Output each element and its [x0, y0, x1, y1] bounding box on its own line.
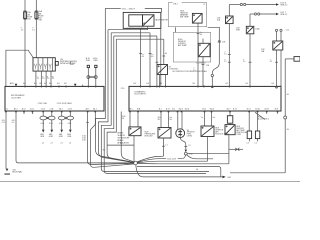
gauge icon 3 — [44, 64, 47, 69]
ground junction node — [134, 161, 138, 165]
branch connector marks — [218, 41, 221, 42]
G31 arrow — [223, 176, 226, 179]
svg-text:0.5: 0.5 — [12, 122, 15, 124]
CAN pair wire 4 (C1.B) — [69, 111, 71, 116]
sensor K6 top stub — [202, 39, 204, 44]
fuel sender internal bar — [179, 130, 181, 137]
svg-text:GRB: GRB — [86, 60, 91, 62]
svg-text:C202 2-DR CAN 1: C202 2-DR CAN 1 — [57, 102, 73, 105]
svg-text:AIR TEMP: AIR TEMP — [178, 44, 187, 47]
wire supply 1 vertical x=25 — [24, 0, 26, 86]
svg-text:4752 — GMC H: 4752 — GMC H — [122, 8, 136, 10]
gauge module divider 4 — [52, 58, 54, 71]
F1 wire ticks and labels — [228, 54, 231, 56]
CAN terminal block 2 — [95, 65, 97, 67]
instrument cluster left box U1 — [5, 86, 104, 111]
svg-text:GND: GND — [125, 163, 130, 165]
svg-text:APPLICATION: APPLICATION — [118, 141, 130, 144]
fuel sender bottom wire — [180, 138, 186, 150]
svg-text:1.5: 1.5 — [37, 78, 40, 80]
svg-text:C.5: C.5 — [188, 145, 191, 147]
svg-text:C20: C20 — [121, 88, 124, 90]
assembly pin wire down to cluster — [140, 28, 142, 86]
svg-text:SQ.D: SQ.D — [179, 109, 184, 111]
S1 branch wire to connector — [208, 27, 220, 74]
fuse relay F1 — [226, 16, 234, 24]
inline connector rings A — [240, 3, 242, 5]
svg-text:B.2: B.2 — [226, 83, 229, 85]
bundle wire 1 staircase to node — [96, 8, 134, 162]
relay F3 — [273, 41, 283, 50]
CAN twisted pair crossover — [90, 76, 94, 78]
speedometer motor square — [143, 15, 155, 26]
F1 output wire to cluster — [228, 24, 230, 87]
branch inline ring — [211, 74, 213, 76]
relay K4 feed wire — [229, 111, 231, 116]
stub pin B.3I — [277, 111, 279, 114]
loop wire 4 tick — [156, 61, 159, 63]
right box top pin ticks — [140, 85, 142, 87]
wire pin A1.n to node via left route — [88, 111, 134, 165]
loop wire 4 — [114, 35, 157, 37]
svg-text:B.17: B.17 — [166, 109, 170, 111]
feed line A with connectors — [229, 4, 240, 6]
gauge module output wire 3 — [45, 71, 47, 86]
right margin connector box — [294, 57, 300, 62]
gauge icon 4 — [49, 64, 52, 69]
K6 wire tick — [202, 64, 205, 66]
svg-text:B.27: B.27 — [233, 109, 237, 111]
gauge icon 1 — [34, 64, 37, 69]
S1 to S2 link wire — [174, 27, 176, 32]
CAN pair wire 2 (C1.B) — [51, 111, 53, 116]
relay K7 output wire 1 — [159, 75, 161, 87]
K5 wire tick and label — [197, 32, 200, 34]
CAN twisted pair ring 2 — [94, 76, 97, 79]
svg-text:A.5: A.5 — [34, 82, 37, 85]
svg-text:B.1: B.1 — [159, 109, 162, 111]
fuel level sender B1 — [176, 129, 185, 138]
relay K2a — [129, 127, 141, 136]
relay K3 — [201, 126, 214, 137]
CAN terminal wire 1 — [87, 68, 89, 87]
node ray to ground arrow G31 bottom — [136, 164, 223, 177]
svg-text:1.5: 1.5 — [224, 61, 226, 63]
svg-text:SQ.D: SQ.D — [185, 109, 190, 111]
F3 output wires to cluster — [276, 50, 278, 86]
relay K3 feed wire 2 — [211, 111, 213, 126]
relay K3 bottom wire to node ray — [207, 137, 209, 162]
stub pin B.2H — [266, 111, 268, 114]
CAN terminal block 1 — [87, 65, 89, 67]
relay F3 top connector rings — [275, 29, 277, 31]
feed B tick — [82, 85, 84, 87]
F2 output wire to cluster — [249, 34, 251, 87]
inline connector pair marks — [235, 148, 239, 151]
svg-text:IN CONSTRUCTION DIFFER FROM RU: IN CONSTRUCTION DIFFER FROM RULE — [173, 71, 207, 73]
svg-text:B1.7: B1.7 — [227, 109, 231, 111]
gauge module output wire 1 — [35, 71, 37, 86]
svg-text:B10: B10 — [27, 18, 30, 20]
relay K4 — [225, 125, 235, 135]
stub pin A.12 — [23, 111, 25, 114]
svg-text:1.5: 1.5 — [42, 78, 45, 80]
svg-text:B.6: B.6 — [147, 83, 150, 85]
sensor K6 output wire — [202, 57, 204, 87]
svg-text:B.4: B.4 — [272, 83, 275, 85]
wire A1.n tick — [86, 121, 89, 123]
svg-text:C2.4: C2.4 — [286, 30, 289, 32]
svg-text:A 4-DR TRLG: A 4-DR TRLG — [258, 118, 270, 121]
svg-text:A1.2: A1.2 — [14, 108, 18, 111]
svg-text:C.1: C.1 — [165, 144, 168, 146]
fuel sender feed wire 1 — [177, 111, 179, 130]
ground wire from pin A1.1 — [5, 111, 7, 169]
assembly bottom wire to bundle wire 2 — [108, 26, 148, 30]
relay K7 — [157, 65, 168, 75]
svg-text:B.9: B.9 — [193, 83, 196, 85]
svg-text:Y.n: Y.n — [201, 117, 203, 119]
CAN pair 1 crossover link — [47, 117, 49, 119]
connector block wire B.C7 — [248, 111, 250, 131]
loop wire 5 tick and label — [162, 55, 165, 57]
pin wire tick and label — [139, 53, 142, 55]
instrument cluster right box U1b — [129, 86, 281, 111]
svg-text:A.1n: A.1n — [30, 108, 34, 111]
svg-text:B.C7: B.C7 — [247, 109, 251, 111]
svg-text:B.n: B.n — [172, 109, 175, 111]
inline connector ring on margin wire — [284, 116, 287, 119]
right margin wire vertical lower — [284, 119, 286, 173]
relay K7 output wire 2 — [165, 75, 167, 87]
sensor box S1 corner label — [173, 2, 182, 5]
svg-text:B.3: B.3 — [246, 83, 249, 85]
relay K2 bottom tick and label — [162, 145, 165, 147]
fuse relay F2 — [246, 26, 254, 34]
junction dot right box corner — [276, 86, 278, 88]
gauge icon 2 — [39, 64, 42, 69]
right margin wire bottom horizontal — [230, 172, 285, 174]
feed line B with connectors — [250, 13, 254, 15]
relay K2 feed wire 2 — [168, 111, 170, 128]
bundle wire 5 branch horizontal — [107, 144, 134, 146]
svg-text:A.9: A.9 — [57, 82, 60, 85]
bundle wire 4 staircase to underline C — [104, 36, 206, 173]
diagonal branch wire — [255, 112, 265, 119]
gauge module output wire 2 — [40, 71, 42, 86]
gauge module divider 3 — [47, 58, 49, 71]
wire supply 2 vertical x=36.3 — [35, 0, 37, 58]
left box bottom pin stubs — [5, 111, 7, 113]
svg-text:TWIN: TWIN — [236, 134, 241, 136]
gauge module box M1 — [33, 58, 55, 71]
feed arrow B onto cluster — [74, 84, 77, 87]
svg-text:A1.7: A1.7 — [59, 108, 63, 111]
svg-text:LEVEL: LEVEL — [187, 136, 193, 138]
F3 wire tick and label — [275, 61, 278, 63]
svg-text:A.3: A.3 — [23, 82, 26, 85]
fuel sender feed wire 2 — [181, 111, 183, 129]
svg-text:CLUSTER B: CLUSTER B — [134, 94, 146, 96]
svg-text:TACHOMETER: TACHOMETER — [155, 18, 169, 21]
svg-text:C2B: C2B — [206, 65, 209, 67]
fuse relay F1 feed — [228, 5, 230, 17]
bundle wire 2 staircase to node — [98, 30, 134, 163]
relay K3 feed wire 1 — [204, 111, 206, 126]
fuse relay F2 feed — [249, 14, 251, 26]
svg-text:B.3I: B.3I — [275, 109, 279, 111]
relay K2a feed wire 1 — [129, 111, 131, 127]
sensor K5 output wire — [197, 23, 199, 86]
arrow to SEE reference B — [276, 13, 279, 15]
sensor box S1 outline — [168, 3, 206, 27]
relay K2a feed wire 2 — [137, 111, 139, 127]
CAN pair wire 1 (C1.B) — [42, 111, 44, 116]
right box bottom pin stubs — [129, 111, 131, 113]
assembly right edge wire down to cluster — [160, 12, 162, 86]
svg-text:B.2H: B.2H — [265, 109, 270, 111]
svg-text:1.5: 1.5 — [270, 61, 272, 63]
gauge module side tab — [55, 62, 58, 66]
svg-text:A.6: A.6 — [40, 82, 43, 85]
bundle wire 5 staircase to node — [107, 39, 134, 162]
relay F3 feed wires — [276, 31, 278, 41]
long under line A to G31 line — [137, 166, 221, 177]
svg-text:C7A.1: C7A.1 — [173, 3, 178, 6]
inline connector on K4 feed — [227, 116, 232, 124]
sensor relay K5 — [192, 13, 202, 23]
svg-text:A2B: A2B — [10, 82, 14, 85]
CAN twisted pair ring 1 — [87, 76, 90, 79]
svg-text:1.5: 1.5 — [52, 78, 55, 80]
branch wire to cluster — [211, 77, 213, 87]
speedometer head box — [129, 15, 143, 26]
relay K2 feed wire 1 — [160, 111, 162, 128]
ground symbol G31 — [6, 169, 9, 172]
loop wire 3 — [111, 32, 150, 34]
node2 ray right — [187, 152, 229, 154]
CAN pair wire 3 (A1.7) — [61, 111, 63, 116]
svg-text:1.5: 1.5 — [21, 29, 24, 31]
bottom wire tick and label — [184, 146, 187, 148]
gauge module divider 2 — [42, 58, 44, 71]
CAN pair 2 crossover link — [65, 117, 67, 119]
junction node 2 — [184, 152, 187, 155]
speedometer assembly outer box — [123, 12, 161, 28]
loop wire 3 tick and label — [149, 53, 152, 55]
arrow to SEE reference A — [276, 3, 279, 5]
connector C1 on wire 1 — [24, 12, 27, 19]
svg-text:1.5: 1.5 — [47, 78, 50, 80]
svg-text:GRB: GRB — [93, 60, 98, 62]
branch junction dot — [211, 86, 213, 88]
stub pin A.1n — [32, 111, 34, 114]
svg-text:C.2: C.2 — [254, 143, 257, 145]
svg-text:C.4: C.4 — [246, 143, 249, 145]
loop wire 5 into relay K7 — [116, 38, 164, 40]
svg-text:A1.1: A1.1 — [5, 108, 9, 111]
connector block X1 — [247, 131, 251, 139]
svg-text:A.8: A.8 — [49, 82, 52, 85]
wire pin A1.2 to junction node — [16, 111, 134, 163]
relay K4 bottom wire to node ray — [228, 135, 230, 164]
svg-text:B.5: B.5 — [134, 83, 137, 85]
svg-text:AIR TEMP: AIR TEMP — [180, 16, 189, 19]
node2 ray lower right — [187, 155, 213, 159]
svg-text:A1.n: A1.n — [86, 108, 90, 111]
bundle wire 3 staircase to underline B — [101, 33, 209, 172]
wire pin A1.n2 jog and descent to node — [91, 111, 135, 167]
node ray to relay K3 bottom — [137, 161, 208, 163]
svg-text:A.7: A.7 — [44, 82, 47, 85]
wire feed from bus pin A up-left — [6, 50, 33, 86]
svg-text:A.12: A.12 — [22, 108, 26, 111]
connector block X2 — [255, 131, 259, 139]
svg-text:1.5: 1.5 — [243, 61, 245, 63]
svg-text:10A5: 10A5 — [255, 28, 259, 31]
svg-text:1.5: 1.5 — [32, 29, 35, 31]
svg-text:0.75: 0.75 — [2, 122, 6, 124]
node ray up-right to relay K2 bottom — [137, 156, 164, 162]
svg-text:C1: C1 — [203, 4, 205, 6]
F2 wire tick and label — [249, 61, 252, 63]
feed arrow A onto cluster — [15, 84, 18, 87]
fuel sender bottom arrow — [185, 150, 187, 153]
svg-text:C202 2-HR: C202 2-HR — [38, 103, 48, 105]
relay K2 — [158, 128, 171, 139]
svg-text:G.n: G.n — [212, 117, 215, 119]
svg-text:BRUS NAV: BRUS NAV — [12, 170, 22, 173]
svg-text:CLUSTER: CLUSTER — [11, 97, 21, 99]
inline connector rings B — [254, 13, 256, 15]
sensor box S2 outline — [173, 32, 210, 62]
right margin wire horizontal — [285, 58, 294, 60]
relay K2 bottom wire to node ray — [162, 138, 164, 156]
svg-text:SRB 4.1: SRB 4.1 — [280, 14, 287, 16]
svg-text:A.2: A.2 — [64, 82, 67, 85]
svg-text:A1.n: A1.n — [93, 108, 97, 111]
right margin wire vertical upper — [284, 59, 286, 116]
gap extra wire to node — [121, 112, 135, 163]
svg-text:C202 2-DR: C202 2-DR — [167, 159, 177, 161]
K4 branch connector line — [229, 148, 243, 150]
svg-text:GND: GND — [189, 154, 194, 156]
node ray to relay K4 bottom — [137, 162, 229, 164]
svg-text:W5: W5 — [103, 150, 106, 152]
svg-text:MODULE: MODULE — [145, 136, 154, 138]
outer loop top wire with label gap — [105, 7, 121, 9]
sensor relay K6 — [198, 43, 210, 56]
CAN terminal wire 2 — [95, 68, 97, 87]
connector block wire B.CB — [257, 111, 259, 131]
svg-text:B1.2: B1.2 — [202, 109, 206, 111]
svg-text:S CONSTRU: S CONSTRU — [196, 63, 206, 65]
left box top pin ticks — [24, 85, 26, 87]
svg-text:SRB 4.2: SRB 4.2 — [280, 4, 287, 6]
connector C2 on wire 2 — [35, 12, 38, 19]
relay K2a bottom wire to node — [133, 136, 135, 162]
svg-text:1.5: 1.5 — [224, 54, 226, 56]
gauge module divider 1 — [37, 58, 39, 71]
node ray to node2 with C202 label — [137, 159, 166, 163]
diagram bottom border line — [0, 181, 300, 183]
gauge module output wire 4 — [50, 71, 52, 86]
